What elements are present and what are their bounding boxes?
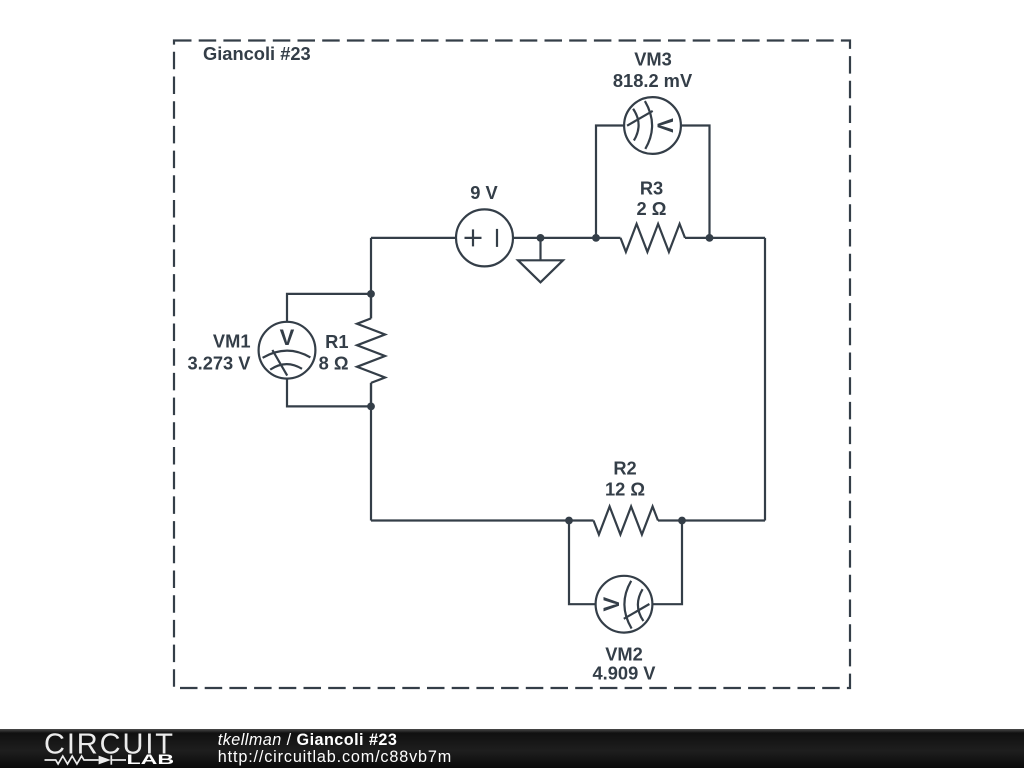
V1 minus symbol [496,229,498,247]
svg-text:818.2 mV: 818.2 mV [613,70,693,91]
value label 818.2 mV [613,70,693,91]
voltmeter VM3 [624,97,681,154]
footer url line [218,749,452,765]
wire VM2 left branch [569,521,596,605]
CircuitLab logo wordmark [0,729,200,768]
logo resistor-diode glyph [45,755,127,764]
wire R2 right lead [658,519,682,521]
wire VM3 right branch [681,126,710,238]
wire left vertical upper (R1 branch trunk) [370,238,372,319]
voltmeter VM1 [259,322,316,379]
wire R2 left lead [569,519,594,521]
label VM3 [634,49,672,70]
svg-text:VM1: VM1 [213,331,251,352]
svg-text:VM3: VM3 [634,49,672,70]
svg-text:8 Ω: 8 Ω [319,353,349,374]
wire R1 bottom lead [370,383,372,407]
wire R3 to node B [685,237,710,239]
svg-text:R3: R3 [640,178,663,199]
wire VM1 bottom branch [287,379,371,407]
label R3 [640,178,663,199]
wire VM2 right branch [652,521,682,605]
wire bottom-right horizontal [682,519,765,521]
wire R1 top lead [370,294,372,319]
dashed boundary [174,41,850,689]
footer title line [218,732,398,748]
svg-text:3.273 V: 3.273 V [187,353,251,374]
voltage source V1 [456,209,513,266]
value label 2 Ohm [637,198,667,219]
value label 4.909 V [592,663,656,684]
wire left vertical lower (R1 branch trunk) [370,383,372,521]
wire top-left horizontal to source [371,237,456,239]
label R1 [325,331,348,352]
wire right vertical [764,238,766,521]
svg-text:9 V: 9 V [470,182,498,203]
V1 plus symbol [465,229,482,246]
resistor R2 [594,507,659,535]
junction node A (VM3 left / R3 left) [592,234,600,242]
wire node A to R3 [596,237,621,239]
value label 8 Ohm [319,353,349,374]
ground [518,238,563,282]
svg-text:R2: R2 [613,458,636,479]
svg-text:Giancoli #23: Giancoli #23 [203,43,311,64]
wire VM1 top branch [287,294,371,322]
value label 12 Ohm [605,479,645,500]
junction node C (R2 right / VM2 right) [678,517,686,525]
label VM2 [605,643,643,664]
resistor R3 [621,224,686,252]
label R2 [613,458,636,479]
value label 3.273 V [187,353,251,374]
wire VM3 left branch [596,126,624,238]
junction VM1 bottom node [367,403,375,411]
wire source to ground node [513,237,541,239]
CircuitLab footer bar [0,729,1024,768]
resistor R1 [357,318,385,383]
label VM1 [213,331,251,352]
svg-text:LAB: LAB [127,753,175,768]
svg-text:R1: R1 [325,331,348,352]
junction VM1 top node [367,290,375,298]
junction node D (R2 left / VM2 left) [565,517,573,525]
svg-text:VM2: VM2 [605,643,643,664]
junction node B (VM3 right / R3 right) [706,234,714,242]
wire top-right horizontal [710,237,766,239]
value label 9 V [470,182,498,203]
svg-text:12 Ω: 12 Ω [605,479,645,500]
title label Giancoli #23 [203,43,311,64]
junction at ground node [537,234,545,242]
svg-text:4.909 V: 4.909 V [592,663,656,684]
svg-text:2 Ω: 2 Ω [637,198,667,219]
voltmeter VM2 [596,576,653,633]
wire bottom-left horizontal [371,519,569,521]
wire ground node to node A [541,237,597,239]
